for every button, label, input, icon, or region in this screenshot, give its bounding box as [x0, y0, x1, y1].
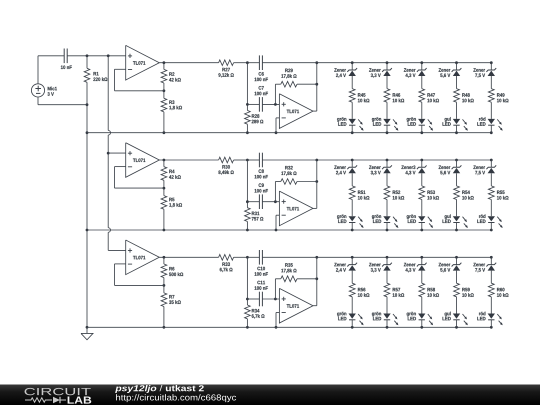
LED gul row1 col4: [443, 102, 468, 133]
LED grön row2 col2: [372, 200, 399, 231]
resistor R32: [274, 166, 318, 203]
ground: [81, 327, 93, 340]
wire row2 zener rail: [262, 159, 492, 162]
resistor R55: [488, 186, 508, 200]
op-amp U2a TL071: [126, 143, 160, 178]
resistor R51: [349, 186, 369, 200]
resistor R54: [454, 186, 474, 200]
resistor R29: [274, 69, 318, 106]
op-amp U2b TL071: [279, 191, 313, 226]
zener diode Zener 7,5 V row3 col5: [473, 257, 496, 283]
zener diode Zener 7,5 V row1 col5: [473, 63, 496, 89]
voltage source Mic1: [31, 84, 57, 97]
resistor R53: [419, 186, 439, 200]
LED grön row3 col2: [372, 297, 399, 328]
wire U3b - input to ground rail: [275, 313, 280, 329]
zener diode Zener 3,3 V row2 col2: [369, 160, 392, 186]
wire U2b output: [313, 159, 318, 209]
LED grön row2 col1: [337, 200, 363, 231]
resistor R56: [349, 283, 369, 297]
zener diode Zener 3,3 V row3 col2: [369, 257, 392, 283]
node A row1: [246, 61, 249, 110]
wire U3b output: [313, 256, 318, 306]
resistor R30: [218, 157, 247, 175]
resistor R34: [245, 305, 265, 329]
LED grön row1 col3: [407, 102, 433, 133]
resistor R60: [488, 283, 508, 297]
wire U2b - input to ground rail: [275, 215, 280, 231]
LED gul row2 col4: [443, 200, 468, 231]
wire feedback to U3a - input: [115, 264, 166, 287]
op-amp U1a TL071: [126, 45, 160, 80]
capacitor C11: [247, 281, 279, 307]
resistor R28: [245, 110, 264, 134]
footer text: [115, 385, 236, 402]
resistor R57: [384, 283, 404, 297]
resistor R6: [161, 257, 183, 285]
zener diode Zener 5,6 V row1 col4: [439, 63, 462, 89]
LED grön row3 col3: [407, 297, 433, 328]
resistor R46: [384, 89, 404, 103]
capacitor C9: [247, 183, 279, 209]
node A row3: [246, 256, 249, 305]
resistor R2: [161, 63, 181, 91]
capacitor C7: [247, 86, 279, 112]
zener diode Zener 7,5 V row2 col5: [473, 160, 496, 186]
LED grön row2 col3: [407, 200, 433, 231]
op-amp U3b TL071: [279, 288, 313, 323]
wire feedback to U1a - input: [115, 69, 166, 92]
resistor R58: [419, 283, 439, 297]
zener diode Zener 2,4 V row1 col1: [334, 63, 357, 89]
footer bar: [0, 385, 540, 405]
wire row2 ground rail: [87, 229, 493, 232]
capacitor C8: [247, 153, 268, 179]
resistor R35: [274, 263, 318, 300]
op-amp U1b TL071: [279, 94, 313, 129]
LED grön row3 col1: [337, 297, 363, 328]
LED grön row1 col1: [337, 102, 363, 133]
resistor R5: [161, 188, 182, 231]
resistor R48: [454, 89, 474, 103]
wire capacitor to op-amp + input: [67, 54, 126, 57]
node A row2: [246, 159, 249, 208]
zener diode Zener 2,4 V row2 col1: [334, 160, 357, 186]
resistor R47: [419, 89, 439, 103]
resistor R33: [219, 255, 248, 273]
LED röd row3 col5: [477, 297, 502, 328]
wire row2 + input: [108, 152, 126, 154]
wire row3 ground rail: [87, 326, 493, 329]
resistor R4: [161, 160, 181, 188]
op-amp U3a TL071: [126, 240, 160, 275]
wire U3a output: [159, 256, 218, 259]
zener diode Zener 3,3 V row1 col2: [369, 63, 392, 89]
wire signal bus: [107, 56, 111, 251]
zener diode Zener 5,6 V row2 col4: [439, 160, 462, 186]
resistor R59: [454, 283, 474, 297]
LED röd row1 col5: [477, 102, 502, 133]
zener diode Zener 5,6 V row3 col4: [439, 257, 462, 283]
wire U2a output: [159, 159, 218, 162]
wire row1 zener rail: [262, 61, 492, 64]
wire row1 ground rail: [87, 131, 493, 134]
LED gul row3 col4: [443, 297, 468, 328]
wire U1b output: [313, 61, 318, 111]
LED röd row2 col5: [477, 200, 502, 231]
resistor R27: [218, 60, 247, 78]
capacitor C6: [247, 55, 268, 81]
resistor R49: [488, 89, 508, 103]
wire mic top to capacitor: [38, 56, 64, 84]
wire mic bottom: [38, 97, 88, 106]
resistor R7: [161, 285, 181, 328]
wire feedback to U2a - input: [115, 167, 166, 190]
zener diode Zener 4,3 V row3 col3: [404, 257, 427, 283]
wire U1b - input to ground rail: [275, 118, 280, 134]
resistor R52: [384, 186, 404, 200]
wire row3 zener rail: [262, 256, 492, 259]
resistor R31: [245, 208, 264, 232]
resistor R3: [161, 91, 182, 134]
zener diode Zener 4,3 V row1 col3: [404, 63, 427, 89]
wire ground bus: [86, 105, 89, 329]
zener diode Zener3 4,3 V row2 col3: [401, 160, 426, 186]
wire U1a output: [159, 61, 218, 64]
CircuitLab logo: [25, 388, 92, 404]
LED grön row1 col2: [372, 102, 399, 133]
zener diode Zener 2,4 V row3 col1: [334, 257, 357, 283]
resistor R1: [84, 56, 107, 105]
capacitor 10 nF: [61, 49, 72, 70]
capacitor C10: [247, 250, 268, 276]
wire row3 + input: [108, 249, 126, 251]
resistor R45: [349, 89, 369, 103]
